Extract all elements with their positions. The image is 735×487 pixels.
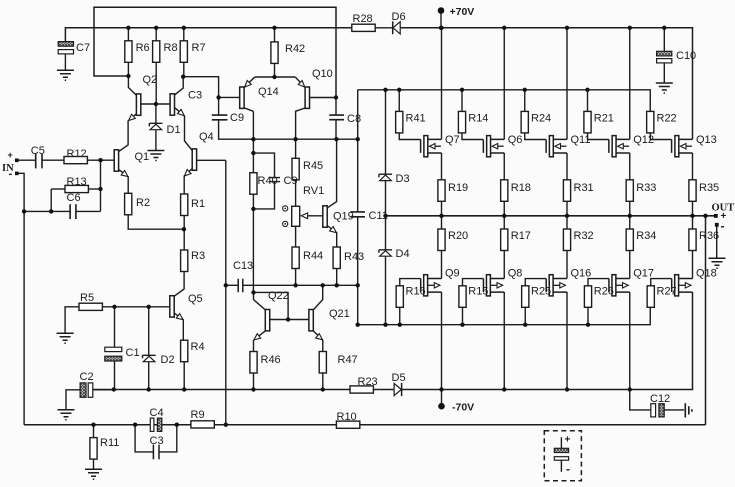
wire R41 stub from upper bus [398,90,400,112]
wire Q2 collector lead [128,76,136,95]
resistor R40 body [250,173,257,195]
wire Q5 base chain [101,306,169,308]
wire Q11 source to R31 [566,153,568,180]
wire output column right side [705,216,707,425]
wire R24 to Q11 gate [525,133,546,140]
wire +70V feed stub [440,11,442,28]
wire Q19 collector lead [327,139,336,208]
wire Q14 base [219,96,240,98]
resistor R26 body [584,286,591,308]
wire R45 to RV1 [295,180,297,207]
svg-text:Q8: Q8 [508,268,523,280]
transistor Q21 emitter arrow [316,334,324,342]
svg-text:C3: C3 [150,435,164,447]
resistor R17 body [501,229,508,251]
wire R25 to Q16 gate [525,279,546,286]
wire R12 to Q1 base [87,159,114,161]
wire R21 stub from upper bus [587,90,589,112]
wire Q16 drain to -70V rail [566,292,568,390]
wire zener chain D3 to rail [385,181,387,250]
svg-text:Q19: Q19 [333,211,354,223]
wire RV1 wiper to Q19 base [303,215,323,217]
resistor R25 body [522,286,529,308]
wire R23 to D5 [373,389,395,391]
svg-text:R17: R17 [511,230,531,242]
wire Q9 drain to -70V rail [441,292,443,390]
wire Q22 base tie [254,292,289,319]
wire R31 to output rail [566,201,568,216]
wire Q5 emitter to R4 [174,313,183,340]
wire R32 to Q16 source [566,251,568,279]
transistor Q1 body bar [114,150,118,171]
capacitor C13 [238,279,243,293]
wire R44 bottom lead [295,269,297,286]
node dots on +rail y=28 [126,26,666,30]
wire C12 to chassis [664,409,684,411]
resistor R42 body [271,42,278,64]
svg-text:R21: R21 [594,113,614,125]
resistor R41 body [396,111,403,132]
wire R8 bottom lead to base tie [155,62,157,104]
wire R34 from output rail [629,216,631,229]
node Q2 collector / R6 [126,74,130,78]
svg-text:R20: R20 [448,230,468,242]
wire R14 stub from upper bus [461,90,463,112]
transistor Q10 body bar [305,87,309,108]
diode D5 [394,383,402,396]
wire R6 bottom lead [127,62,129,76]
mosfet Q8 [483,275,504,296]
svg-text:R1: R1 [191,198,205,210]
wire C9 bottom lead and bias node y=139 [219,120,358,139]
wire Q7 drain from +70V rail [441,28,443,140]
node Q3 collector / R7 [181,75,185,79]
svg-text:Q22: Q22 [268,290,289,302]
wire Q4 base feedback column [225,160,227,424]
svg-text:R47: R47 [338,354,358,366]
svg-text:-: - [9,168,13,180]
node IN- corner [22,209,26,213]
transistor Q3 body bar [170,94,174,115]
svg-text:R26: R26 [594,286,614,298]
wire top cascode rail (Q2 collector to Q10 base) [94,7,336,97]
svg-text:-70V: -70V [452,402,474,414]
wire R8 top lead [155,28,157,41]
wire C10 bottom lead to ground [663,63,665,83]
svg-text:Q4: Q4 [199,131,214,143]
svg-text:R7: R7 [192,42,206,54]
svg-text:R46: R46 [261,354,281,366]
resistor R32 body [563,229,570,251]
svg-text:R24: R24 [531,113,551,125]
zener D1 [149,123,162,129]
wire Q14/Q10 emitter tie [255,76,296,78]
resistor R22 body [647,111,654,132]
wire R13/C6 left column [50,189,52,211]
wire R40 bypass loop top [253,153,274,178]
svg-text:R16: R16 [406,286,426,298]
wire C13 right to compensation node [243,284,358,286]
wire Q21 collector lead [313,285,322,310]
wire R26 stub to lower bus [587,307,589,325]
svg-text:Q14: Q14 [258,86,279,98]
svg-text:+: + [8,150,13,160]
capacitor C7 [58,42,73,54]
transistor Q2 emitter arrow [127,114,136,122]
wire -70V rail left section [93,389,350,391]
wire R14 to Q6 gate [462,133,483,140]
transistor Q5 body bar [170,296,174,317]
svg-text:C6: C6 [67,192,81,204]
wire R13 left lead [51,188,65,190]
svg-text:-: - [721,219,725,233]
wire Q22 emitter lead [254,331,266,340]
resistor R43 body [333,247,340,269]
wire Q1 emitter to R2 [119,169,129,193]
svg-text:R35: R35 [699,182,719,194]
wire Q3 collector lead [175,77,184,95]
resistor R31 body [563,180,570,202]
wire D6 to +70V rail and Q13 drain [400,28,692,140]
zener D4 [379,250,392,256]
wire C8 bottom lead [335,120,337,140]
zener D2 [143,355,156,361]
node Q10 base / C8 [334,95,338,99]
transistor Q14 body bar [240,87,244,108]
capacitor C3 (lower bypass) [153,445,159,460]
svg-text:Q9: Q9 [445,268,460,280]
resistor R5 body [79,303,102,310]
battery legend box [544,431,581,481]
resistor R15 body [459,286,466,308]
wire R16 to Q9 gate [400,279,421,286]
wire R24 stub from upper bus [524,90,526,112]
resistor R47 body [319,352,326,374]
svg-text:R14: R14 [468,113,488,125]
capacitor C6 [70,204,76,219]
wire D5 to -70V rail and Q18 drain [402,292,693,390]
wire C1 bottom lead [114,361,116,390]
ground below C7 [57,70,74,80]
svg-text:R43: R43 [344,251,364,263]
svg-text:D1: D1 [167,124,181,136]
transistor Q10 emitter arrow [298,80,306,88]
wire C10 top lead [663,28,665,52]
wire R41 to Q7 gate [399,133,420,140]
wire IN+ to C5 [17,159,36,161]
svg-text:R42: R42 [285,43,305,55]
wire R17 from output rail [503,216,505,229]
wire Q22-Q21 base link [266,319,309,321]
capacitor C4 [150,418,161,431]
wire R6 top lead [127,28,129,41]
wire R25 stub to lower bus [524,307,526,325]
wire Q2 emitter to Q1 collector [119,114,137,152]
wire R15 stub to lower bus [462,307,464,325]
wire C2 left lead to ground [66,390,80,410]
svg-text:D3: D3 [396,173,410,185]
svg-text:-: - [566,462,570,476]
svg-text:R3: R3 [191,250,205,262]
wire C11 column lower (C11 to lower gate bus) [357,217,359,325]
svg-text:C11: C11 [369,210,388,222]
resistor R3 body [181,250,188,272]
wire D2 bottom lead [148,362,150,390]
wire R46 top lead [253,340,255,352]
wire Q3 emitter to Q4 collector [175,108,193,151]
wire zener chain D4 to lower bus [385,256,387,325]
wire R46 bottom lead [253,373,255,390]
resistor R14 body [458,111,465,132]
resistor R24 body [521,111,528,132]
resistor R4 body [181,340,188,362]
node R40 top [251,151,255,155]
mosfet Q18 [672,275,693,296]
wire R21 to Q12 gate [588,133,609,140]
wire RV1 to R44 [295,226,297,247]
svg-text:+: + [565,435,571,446]
ground below OUT minus [709,258,726,268]
svg-text:R5: R5 [80,292,94,304]
wire C6 right lead [76,210,100,212]
svg-text:Q12: Q12 [633,134,654,146]
svg-text:C4: C4 [150,407,164,419]
wire R15 to Q8 gate [463,279,484,286]
svg-text:Q16: Q16 [571,268,592,280]
resistor R16 body [396,286,403,308]
resistor R6 body [125,41,132,63]
svg-text:C1: C1 [126,347,140,359]
svg-text:C13: C13 [233,260,253,272]
wire Q12 drain from +70V rail [629,28,631,140]
wire R20 to Q9 source [441,251,443,279]
wire R18 to output rail [503,201,505,216]
wire C8 top lead [335,98,337,116]
wire OUT plus stub [706,215,716,217]
transistor Q5 emitter arrow [176,314,184,322]
wire Q4 emitter to R1 [184,169,192,195]
mosfet Q17 [609,275,630,296]
terminal OUT+ pad [714,214,718,218]
svg-text:Q10: Q10 [312,68,333,80]
wire R17 to Q8 source [503,251,505,279]
wire Q14 emitter lead [244,77,255,88]
resistor R10 body [336,421,359,428]
svg-text:Q7: Q7 [445,134,460,146]
wire Q19 emitter to R43 [336,232,338,247]
wire battery plus lead [560,437,562,448]
capacitor C1 [105,347,122,361]
wire C12 stub [630,390,651,410]
zener D3 [379,174,392,180]
wire R5 left lead to ground [65,307,79,334]
resistor R28 body [352,24,375,31]
svg-text:Q1: Q1 [135,151,150,163]
wire D1 bottom lead to ground [155,130,157,151]
mosfet Q6 [483,136,504,157]
svg-text:R33: R33 [636,182,656,194]
svg-text:R31: R31 [574,182,594,194]
wire input minus to left feedback border [17,173,24,424]
wire R47 top lead [322,340,324,352]
ground below C10 [656,83,673,93]
svg-text:C2: C2 [80,371,94,383]
wire C7 bottom lead to ground [64,54,66,70]
wire upper gate bias bus [358,90,651,112]
resistor R36 body [689,229,696,251]
svg-text:D6: D6 [392,11,406,23]
wire R16 stub to lower bus [399,307,401,325]
wire R13 right lead [88,188,100,190]
svg-text:R22: R22 [657,113,677,125]
terminal OUT- pad [715,223,719,227]
terminal IN- pad [15,172,19,176]
svg-text:C3: C3 [188,90,202,102]
capacitor C2 [80,383,93,397]
wire R36 from output rail [692,216,694,229]
svg-text:R44: R44 [303,250,323,262]
node +70V terminal [438,7,445,14]
svg-text:+70V: +70V [450,6,475,18]
resistor R35 body [689,180,696,202]
wire R40 bypass loop bottom [253,182,274,209]
svg-text:D4: D4 [396,248,410,260]
wire R34 to Q17 source [629,251,631,279]
wire zener chain D3 upper lead [385,90,387,174]
capacitor C5 [36,154,42,169]
mosfet Q16 [546,275,567,296]
wire OUT- terminal to ground [716,225,718,259]
svg-text:R13: R13 [67,176,87,188]
svg-text:Q17: Q17 [633,268,654,280]
wire C1 top lead [114,307,116,347]
resistor R33 body [626,180,633,202]
resistor R45 body [292,158,299,180]
wire Q19 emitter lead [327,226,337,233]
svg-text:R2: R2 [136,197,150,209]
resistor R12 body [64,157,87,164]
wire C3 bypass loop right [159,425,177,452]
node R13/C6 left [49,209,53,213]
svg-text:C7: C7 [76,42,90,54]
wire R19 to output rail [441,201,443,216]
resistor R18 body [501,180,508,202]
svg-text:R15: R15 [468,286,488,298]
svg-text:R40: R40 [258,175,278,187]
resistor R34 body [626,229,633,251]
capacitor C8 [329,115,344,120]
transistor Q19 body bar [323,206,327,227]
capacitor C9 [212,115,228,120]
wire R33 to output rail [629,201,631,216]
wire Q21 emitter lead [313,331,323,340]
svg-text:R19: R19 [448,182,468,194]
wire tail to R3 [183,229,185,250]
node upper gate bus [383,88,589,92]
node output rail [383,214,707,218]
wire R27 to Q18 gate [651,279,672,286]
svg-text:R34: R34 [636,230,656,242]
wire D1 top lead [155,104,157,123]
wire Q10 base [310,97,337,99]
svg-text:R41: R41 [406,113,426,125]
wire R3 to Q5 collector [174,272,184,297]
svg-text:Q21: Q21 [329,308,350,320]
wire C13 left lead [226,284,238,286]
wire R45 top lead [295,139,297,158]
transistor Q14 emitter arrow [243,80,251,88]
wire -70V feed stub [441,390,443,405]
wire Q6 drain from +70V rail [503,28,505,140]
wire R28 to D6 [375,27,393,29]
svg-text:C12: C12 [650,393,670,405]
resistor R9 body [191,421,214,428]
wire Q2-Q3 base tie [141,103,170,105]
node diff tail [182,227,186,231]
wire battery minus lead [560,460,562,472]
ground below R11 [85,469,102,479]
wire Q6 source to R18 [503,153,505,180]
capacitor C9b (R40 bypass) [269,178,280,182]
transistor Q19 emitter arrow [330,226,338,234]
node Q14 base / C9 [216,95,220,99]
wire C9 top lead [218,97,220,115]
resistor R23 body [350,386,373,393]
svg-text:C5: C5 [31,145,45,157]
svg-text:R28: R28 [353,13,373,25]
ground below C2 [58,410,75,420]
wire C2 right lead [93,389,114,391]
svg-text:R6: R6 [136,42,150,54]
potentiometer RV1 [283,206,308,227]
mosfet Q12 [609,136,630,157]
wire bottom feedback bus [24,424,705,426]
wire R47 bottom lead [322,373,324,390]
transistor Q4 emitter arrow [183,170,191,178]
ground below R5 [57,333,74,343]
wire C5 to R12 [42,159,64,161]
svg-text:C8: C8 [347,113,361,125]
resistor R8 body [153,41,160,63]
wire R40 bottom chain to Q22 collector node [252,194,254,292]
node -70V rail [112,387,632,391]
mosfet Q13 [672,136,693,157]
node R42 bottom [272,75,276,79]
svg-text:R4: R4 [191,341,205,353]
svg-text:Q18: Q18 [696,268,717,280]
wire R4 bottom lead [183,362,185,390]
wire Q10 emitter lead [295,77,305,88]
svg-text:R12: R12 [67,148,87,160]
wire R7 top lead [183,28,185,41]
wire Q14 collector lead [244,108,253,111]
node compensation wire y=285 [224,283,360,287]
diode D6 [393,21,401,34]
wire Q17 drain to -70V rail [629,292,631,390]
wire Q3 collector node to Q14 base corner [183,77,218,98]
mosfet Q7 [421,136,442,157]
svg-text:R32: R32 [574,230,594,242]
svg-text:C10: C10 [676,50,696,62]
wire Q22 collector lead [254,292,266,310]
wire Q4 base [197,159,226,161]
wire C6 left lead [51,210,70,212]
svg-text:D5: D5 [392,372,406,384]
resistor R21 body [584,111,591,132]
resistor R7 body [180,41,187,63]
wire Q12 source to R33 [629,153,631,180]
terminal IN+ pad [15,159,19,163]
